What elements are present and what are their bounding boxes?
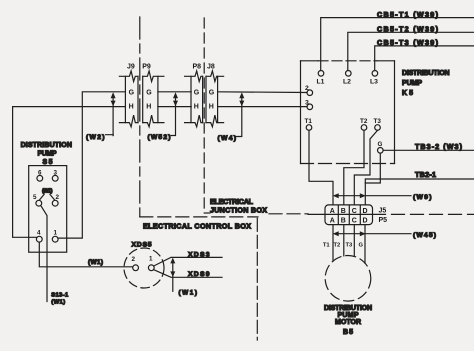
cable W52 label and arrow [148, 92, 179, 141]
svg-text:J9: J9 [127, 63, 135, 70]
switch S5 blade to S13-1 [41, 206, 69, 306]
svg-text:T2: T2 [334, 243, 341, 249]
svg-text:DISTRIBUTION: DISTRIBUTION [402, 70, 450, 77]
wire W1 from S5 pin 4 to XDS5 [39, 242, 132, 267]
svg-text:5: 5 [33, 194, 37, 201]
svg-text:DISTRIBUTION: DISTRIBUTION [324, 305, 372, 312]
wire H between connectors [158, 106, 191, 108]
svg-text:XDS5: XDS5 [132, 241, 152, 248]
svg-text:(W52): (W52) [148, 134, 171, 141]
svg-text:J5: J5 [379, 208, 387, 215]
svg-text:D: D [363, 208, 368, 215]
switch S5 pin 5 [33, 194, 42, 206]
svg-text:2: 2 [305, 85, 309, 92]
wire TB3-2 (W3) [383, 142, 474, 151]
wire XDS3 [154, 251, 222, 266]
svg-text:P5: P5 [379, 217, 388, 224]
svg-text:CB5-T2 (W39): CB5-T2 (W39) [377, 24, 439, 33]
XDS5 pin 1 [148, 256, 154, 271]
switch S5 pin 1 [52, 229, 58, 242]
wire K5 T1 to J5-A [309, 130, 333, 205]
svg-text:B5: B5 [343, 329, 353, 336]
svg-text:T3: T3 [346, 243, 354, 249]
terminal T3 (K5) [374, 118, 382, 130]
wire G from J8 to K5 pin 2 [218, 91, 307, 94]
svg-text:K5: K5 [402, 90, 413, 97]
svg-text:PUMP: PUMP [38, 151, 57, 158]
wire K5 G to J5-D [365, 153, 380, 205]
svg-text:A: A [330, 217, 335, 224]
svg-text:G: G [146, 89, 152, 96]
wire H left segment (to S5) [13, 107, 126, 238]
svg-text:(W9): (W9) [413, 194, 432, 201]
svg-text:(W1): (W1) [179, 290, 198, 297]
svg-text:2: 2 [56, 194, 60, 201]
svg-text:B: B [341, 208, 346, 215]
contactor K5 box [301, 61, 450, 164]
svg-text:H: H [129, 104, 134, 111]
svg-text:(W1): (W1) [88, 259, 103, 266]
connector J8 half [206, 63, 224, 127]
svg-text:TB2-1: TB2-1 [415, 170, 436, 179]
svg-text:H: H [209, 104, 214, 111]
switch S5 pin 3 [52, 169, 58, 181]
svg-text:T1: T1 [323, 243, 331, 249]
switch S5 pin 2 [52, 194, 59, 206]
terminal L1 [317, 71, 325, 86]
control box boundary dash-dot line [140, 17, 258, 340]
svg-text:1: 1 [149, 256, 153, 263]
svg-text:(W2): (W2) [86, 134, 105, 141]
svg-text:A: A [330, 208, 335, 215]
svg-text:MOTOR: MOTOR [335, 319, 361, 326]
wire CB5-T2 (W39) [348, 24, 474, 70]
svg-text:DISTRIBUTION: DISTRIBUTION [21, 142, 72, 149]
svg-text:L3: L3 [370, 79, 378, 86]
svg-text:B: B [341, 217, 346, 224]
svg-text:PUMP: PUMP [338, 312, 359, 319]
connector P9 half [142, 63, 164, 127]
svg-text:S13-1: S13-1 [51, 293, 69, 299]
wire K5 T3 to J5-C [354, 130, 377, 205]
connector J9 half [119, 63, 138, 127]
cable W9 label and arrow [333, 193, 432, 201]
wire CB5-T3 (W39) [375, 38, 474, 71]
svg-text:(W1): (W1) [42, 188, 53, 194]
svg-text:T2: T2 [360, 118, 368, 125]
svg-text:G: G [194, 89, 200, 96]
cable W2 label and arrow [86, 92, 116, 141]
svg-text:G: G [209, 89, 215, 96]
svg-text:L1: L1 [317, 79, 325, 86]
svg-text:1: 1 [54, 229, 58, 236]
switch S5 pin 4 [36, 229, 42, 242]
XDS5 pin 2 [132, 256, 139, 271]
wires P5 to motor [323, 225, 365, 264]
svg-text:L2: L2 [343, 79, 351, 86]
svg-text:H: H [146, 104, 151, 111]
svg-text:3: 3 [54, 169, 58, 176]
jumper W1 between pins 5 and 2 [40, 188, 55, 200]
wire H from J8 to K5 pin 3 [218, 106, 307, 108]
svg-text:C: C [352, 217, 357, 224]
terminal L3 [370, 71, 378, 86]
svg-text:H: H [194, 104, 199, 111]
wire TB2-1 [365, 170, 474, 183]
svg-text:TB3-2 (W3): TB3-2 (W3) [415, 142, 463, 151]
terminal G (K5) [378, 141, 384, 153]
switch S5 pin 6 [37, 169, 43, 181]
svg-text:PUMP: PUMP [402, 80, 422, 87]
svg-text:G: G [129, 89, 135, 96]
cable W45 label and arrow [333, 231, 436, 239]
terminal 3 (K5) [305, 99, 313, 109]
terminal T1 (K5) [305, 118, 313, 130]
connector P8 half [185, 63, 203, 127]
wire K5 T2 to J5-B [344, 130, 364, 205]
svg-text:G: G [359, 243, 364, 249]
wire G left segment (to S5) [58, 92, 125, 238]
wire G between connectors [158, 91, 191, 93]
terminal L2 [343, 71, 351, 86]
svg-text:CB5-T1 (W39): CB5-T1 (W39) [377, 10, 439, 19]
svg-text:D: D [363, 217, 368, 224]
wire CB5-T1 (W39) [321, 10, 474, 71]
svg-text:2: 2 [132, 256, 136, 263]
junction box boundary dash-dot line [204, 18, 474, 215]
terminal T2 (K5) [360, 118, 368, 130]
svg-text:6: 6 [38, 169, 42, 176]
svg-text:C: C [352, 208, 357, 215]
svg-text:(W4): (W4) [218, 135, 237, 142]
connector XDS5 [124, 241, 164, 288]
wire XDS9 [154, 270, 222, 279]
svg-text:CB5-T3 (W39): CB5-T3 (W39) [377, 38, 439, 47]
svg-text:ELECTRICAL CONTROL BOX: ELECTRICAL CONTROL BOX [143, 221, 251, 230]
cable W4 label and arrow [218, 92, 245, 142]
cable W1 arrow at XDS5 [170, 258, 197, 297]
svg-text:T3: T3 [374, 118, 382, 125]
switch S5 box [21, 142, 72, 252]
svg-text:4: 4 [37, 229, 41, 236]
svg-text:JUNCTION BOX: JUNCTION BOX [210, 206, 267, 215]
connector J5/P5 [308, 205, 387, 225]
svg-text:J8: J8 [207, 63, 215, 70]
terminal 2 (K5) [305, 85, 313, 95]
svg-text:3: 3 [305, 99, 309, 106]
svg-text:P9: P9 [142, 63, 151, 70]
svg-text:T1: T1 [305, 118, 313, 125]
svg-text:(W1): (W1) [51, 300, 65, 306]
motor B5 [324, 255, 372, 336]
svg-text:(W45): (W45) [413, 232, 436, 239]
svg-text:G: G [378, 141, 383, 148]
